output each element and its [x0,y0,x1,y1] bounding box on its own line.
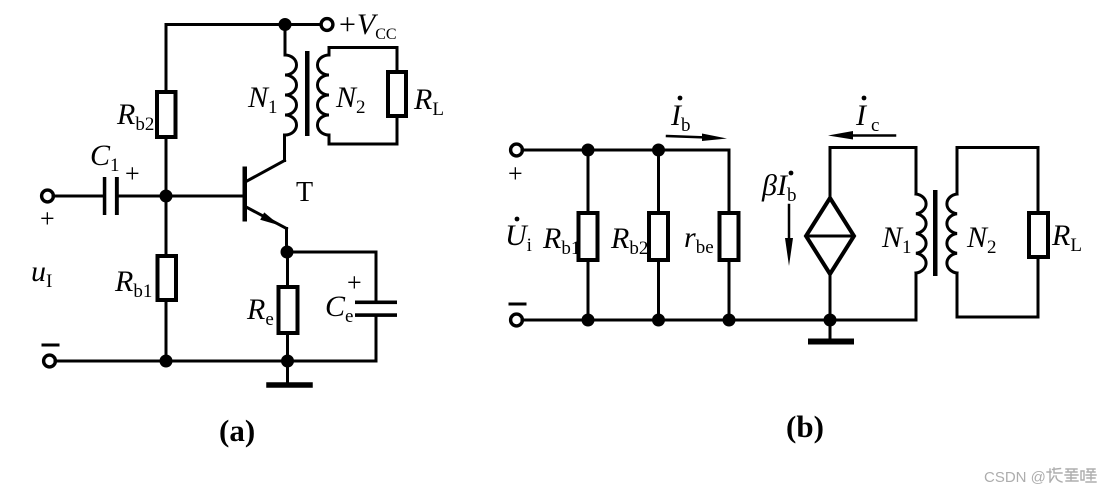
resistor RL (b) [1029,148,1048,318]
node Rb2 top (b) [652,144,665,157]
inductor N2 winding (b) [947,148,957,318]
wire N2 loop top (b) [957,146,1038,149]
label Ce [325,290,353,327]
wire N2 loop top (a) [329,46,397,49]
wire collector to N1 [283,135,286,161]
label C1 [90,139,120,176]
svg-text:N2: N2 [335,81,366,118]
label rbe [684,221,714,258]
label uI [31,255,52,292]
svg-text:RL: RL [1051,219,1082,256]
resistor Rb1 [158,196,177,361]
svg-text:Ib: Ib [670,99,691,136]
watermark CSDN [984,468,1096,486]
label Ic current [855,96,879,136]
transformer core (a) [305,51,310,136]
svg-text:rbe: rbe [684,221,714,258]
svg-text:(a): (a) [219,413,255,448]
wire C1 to base [119,195,243,198]
label + at C1 [125,159,140,188]
svg-text:+: + [125,159,140,188]
svg-text:Rb2: Rb2 [610,222,648,259]
svg-text:C1: C1 [90,139,120,176]
label N1 (a) [247,81,278,118]
svg-text:Rb1: Rb1 [114,265,152,302]
label Ib current [670,96,691,136]
label N2 (a) [335,81,366,118]
resistor rbe [720,150,739,320]
label (a) [219,413,255,448]
terminal +Vcc [321,19,333,31]
resistor Re [279,252,298,361]
node Rb1 bottom [160,355,173,368]
label Ui [505,217,532,256]
transformer core (b) [933,190,938,276]
node Rb2 bottom (b) [652,314,665,327]
node ground junction (b) [824,314,837,327]
label (b) [786,409,824,444]
terminal + (b) [511,144,523,156]
label - (b) [510,303,525,306]
inductor N2 secondary winding (a) [318,48,330,145]
node base junction [160,190,173,203]
node top junction (a) [279,18,292,31]
label + (b) [508,159,523,188]
label Rb1 [114,265,152,302]
node rbe bottom (b) [723,314,736,327]
wire emitter to Ce [287,251,376,254]
node emitter junction [281,246,294,259]
arrow Ib [667,134,727,142]
label RL (a) [413,83,444,120]
label RL (b) [1051,219,1082,256]
terminal input - (a) [44,355,56,367]
svg-text:N1: N1 [247,81,278,118]
wire bottom rail (b) [522,319,916,322]
svg-text:Re: Re [246,293,274,330]
resistor Rb2 [157,25,176,197]
label beta Ib [761,169,796,206]
wire input to C1 [53,195,102,198]
svg-text:N1: N1 [881,221,912,258]
inductor N1 primary winding (a) [285,25,297,136]
label Rb2 (b) [610,222,648,259]
terminal - (b) [511,314,523,326]
label N1 (b) [881,221,912,258]
svg-text:Rb2: Rb2 [116,98,154,135]
label + input (a) [40,204,55,233]
transistor T [243,161,287,253]
svg-text:+: + [508,159,523,188]
label Rb2 [116,98,154,135]
label - input (a) [43,344,58,347]
resistor Rb1 (b) [579,150,598,320]
wire current source to N1 (b) [830,146,916,149]
node Rb1 bottom (b) [582,314,595,327]
svg-text:+: + [347,268,362,297]
capacitor C1 [103,177,119,215]
label + at Ce [347,268,362,297]
arrow beta Ib downward [785,205,793,266]
ground (a) [269,361,310,385]
wire N2 loop bottom (a) [329,143,397,146]
label Re [246,293,274,330]
ground (b) [811,320,851,342]
svg-text:RL: RL [413,83,444,120]
wire top rail (a) [166,23,321,26]
svg-text:Ui: Ui [505,219,532,256]
svg-text:(b): (b) [786,409,824,444]
label T [296,177,313,208]
wire top rail (b) [522,149,729,152]
svg-text:Ic: Ic [855,99,879,136]
label N2 (b) [966,221,997,258]
inductor N1 winding (b) [916,148,926,321]
wire N2 loop bottom (b) [957,316,1038,319]
label +Vcc [339,8,397,43]
resistor Rb2 (b) [649,150,668,320]
current source beta Ib [806,148,854,321]
capacitor Ce [355,252,397,361]
node Rb1 top (b) [582,144,595,157]
svg-text:+: + [40,204,55,233]
svg-text:Rb1: Rb1 [542,222,580,259]
svg-text:T: T [296,177,313,208]
node ground junction (a) [281,355,294,368]
svg-text:CSDN @: CSDN @ [984,469,1046,486]
terminal input + (a) [42,190,54,202]
resistor RL (a) [388,48,406,145]
arrow Ic [828,131,895,140]
svg-text:N2: N2 [966,221,997,258]
wire bottom rail (a) [55,360,376,363]
label Rb1 (b) [542,222,580,259]
svg-text:+VCC: +VCC [339,8,397,43]
svg-text:uI: uI [31,255,52,292]
